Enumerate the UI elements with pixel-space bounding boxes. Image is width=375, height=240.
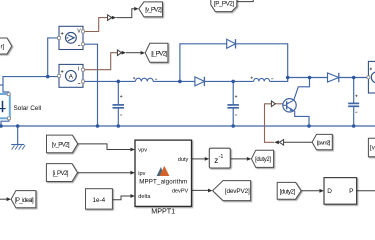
svg-text:[i_PV2]: [i_PV2]: [53, 170, 69, 177]
svg-text:r]: r]: [1, 44, 5, 51]
svg-text:[duty2]: [duty2]: [280, 189, 296, 195]
svg-text:ipv: ipv: [138, 171, 145, 177]
svg-text:I: I: [78, 67, 79, 73]
svg-text:delta: delta: [138, 194, 151, 200]
svg-text:[v_PV2]: [v_PV2]: [52, 141, 70, 148]
svg-text:z: z: [214, 156, 218, 165]
svg-text:vpv: vpv: [138, 148, 147, 154]
svg-text:[devPV2]: [devPV2]: [225, 188, 250, 195]
svg-text:[P_ideal]: [P_ideal]: [15, 198, 34, 204]
svg-text:[duty2]: [duty2]: [255, 157, 271, 163]
svg-text:[P_PV2]: [P_PV2]: [214, 0, 234, 7]
svg-text:P: P: [349, 188, 353, 195]
svg-text:MPPT1: MPPT1: [151, 207, 175, 216]
svg-text:MPPT_algorithm: MPPT_algorithm: [139, 179, 187, 186]
svg-text:D: D: [327, 188, 332, 195]
svg-text:devPV: devPV: [172, 188, 189, 194]
svg-text:[v_PV2]: [v_PV2]: [145, 7, 162, 13]
svg-text:-1: -1: [219, 154, 224, 160]
svg-text:Solar Cell: Solar Cell: [14, 105, 42, 112]
svg-text:duty: duty: [178, 157, 189, 163]
svg-text:[v_P: [v_P: [370, 145, 375, 152]
svg-text:V: V: [77, 28, 81, 34]
svg-text:[pwm2]: [pwm2]: [317, 141, 331, 147]
svg-text:[i_PV2]: [i_PV2]: [151, 50, 167, 57]
svg-text:A: A: [69, 73, 74, 80]
svg-text:1e-4: 1e-4: [92, 197, 105, 204]
